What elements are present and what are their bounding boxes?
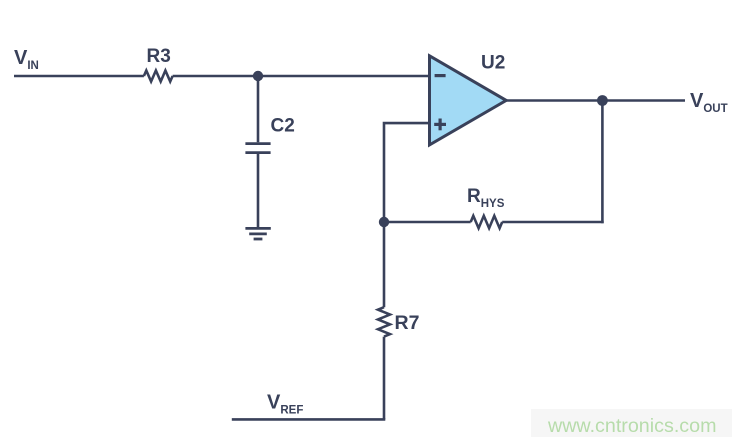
resistor RHYS [471, 216, 503, 228]
resistor R7 [378, 307, 390, 336]
resistor R3 [144, 71, 173, 82]
svg-text:VOUT: VOUT [690, 90, 728, 115]
op-amp U2 [430, 56, 507, 145]
svg-text:VREF: VREF [267, 391, 303, 416]
svg-text:R3: R3 [147, 46, 171, 67]
wire: non-inverting input feedback leg [384, 123, 430, 222]
watermark background panel [531, 409, 732, 437]
pin + (non-inverting input mark) [434, 119, 446, 131]
wire: VIN to R3 [14, 75, 144, 78]
wire: junction to RHYS [384, 221, 471, 224]
svg-text:VIN: VIN [14, 47, 39, 72]
wire: RHYS to output leg [502, 221, 604, 224]
wire: op-amp output [506, 99, 685, 102]
svg-text:www.cntronics.com: www.cntronics.com [547, 415, 716, 437]
svg-text:U2: U2 [481, 53, 505, 74]
wire: C2 to ground [257, 154, 260, 228]
svg-text:RHYS: RHYS [467, 186, 505, 210]
wire: VREF rail [232, 418, 385, 421]
wire: R7 down to VREF rail [383, 337, 386, 420]
capacitor C2 [245, 144, 270, 153]
svg-text:C2: C2 [271, 116, 295, 137]
node junction output [597, 95, 608, 106]
pin - (inverting input mark) [435, 74, 446, 77]
wire: junction down to C2 [257, 76, 260, 142]
wire: junction down to R7 [383, 222, 386, 307]
node junction feedback [379, 217, 389, 227]
svg-text:R7: R7 [395, 312, 420, 334]
wire: output down to RHYS [601, 101, 604, 224]
node junction at C2 tap [253, 71, 263, 81]
ground [245, 228, 270, 239]
wire: R3 to op-amp inverting input [173, 75, 430, 78]
